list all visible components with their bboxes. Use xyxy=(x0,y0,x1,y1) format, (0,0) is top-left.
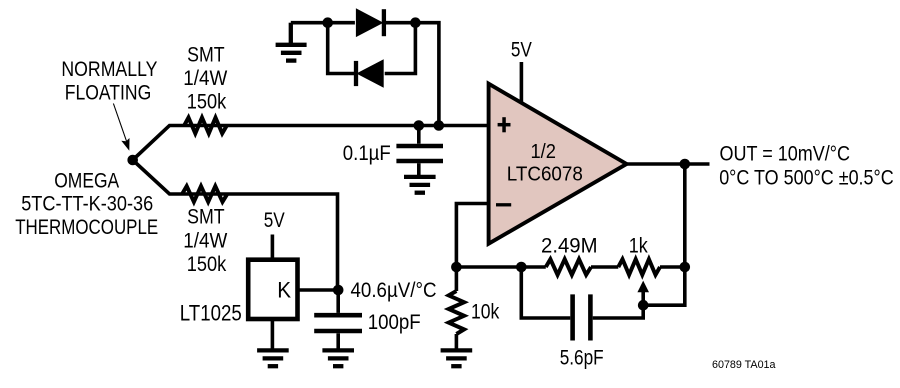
node: clamp right junction xyxy=(410,17,421,28)
wire: 5V supply stub at op-amp xyxy=(520,62,524,103)
node: 5.6pF branch xyxy=(516,262,527,273)
wire: LT1025 ground stub xyxy=(271,319,275,351)
wire: 5V stub LT1025 xyxy=(271,235,275,258)
svg-text:5.6pF: 5.6pF xyxy=(560,347,604,370)
svg-text:LT1025: LT1025 xyxy=(180,301,242,326)
svg-text:K: K xyxy=(277,277,291,302)
svg-text:5TC-TT-K-30-36: 5TC-TT-K-30-36 xyxy=(21,193,153,216)
resistor R1 150k zigzag xyxy=(184,118,227,134)
pin + symbol xyxy=(498,117,511,132)
svg-text:60789 TA01a: 60789 TA01a xyxy=(712,359,776,371)
svg-text:OMEGA: OMEGA xyxy=(54,170,119,193)
svg-text:2.49M: 2.49M xyxy=(541,234,598,257)
svg-text:100pF: 100pF xyxy=(368,311,421,334)
pot wiper arrow xyxy=(637,281,649,306)
node: clamp drop junction on +input line xyxy=(434,120,445,131)
wire: feedback line xyxy=(456,265,545,269)
wire: 5.6pF branch left xyxy=(521,267,570,318)
svg-text:SMT: SMT xyxy=(187,43,225,66)
diode D1 (anode left, pointing right) xyxy=(357,9,384,36)
wire: 5.6pF branch right xyxy=(593,305,644,318)
svg-text:OUT = 10mV/°C: OUT = 10mV/°C xyxy=(720,143,851,166)
svg-text:1/4W: 1/4W xyxy=(183,229,227,252)
node: clamp left junction xyxy=(322,17,333,28)
ground (10k) xyxy=(441,350,473,366)
svg-text:5V: 5V xyxy=(511,39,532,62)
resistor R4 1k pot zigzag xyxy=(618,259,660,275)
ground (LT1025) xyxy=(257,350,289,366)
svg-text:40.6µV/°C: 40.6µV/°C xyxy=(351,279,437,302)
resistor R2 150k zigzag xyxy=(182,186,227,202)
wire: inverting input to feedback node xyxy=(456,204,488,268)
wire: op-amp output xyxy=(627,162,710,166)
wire: bottom clamp diode branch xyxy=(328,23,354,74)
svg-text:LTC6078: LTC6078 xyxy=(507,164,583,186)
ground (100pF) xyxy=(322,350,354,366)
wire: wiper to right feedback node xyxy=(643,267,685,305)
resistor R5 10k vertical xyxy=(455,267,459,291)
svg-text:1/4W: 1/4W xyxy=(183,67,227,90)
wire: thermocouple top lead (node to R1 to opamp + input) xyxy=(133,126,489,161)
svg-text:5V: 5V xyxy=(264,209,285,232)
svg-text:NORMALLY: NORMALLY xyxy=(61,58,157,81)
capacitor C1 0.1uF xyxy=(396,126,443,177)
node: C1 junction on +input line xyxy=(414,120,425,131)
node: output xyxy=(680,159,691,170)
diode D2 (pointing left) xyxy=(356,61,383,86)
svg-text:FLOATING: FLOATING xyxy=(65,82,152,105)
svg-text:1/2: 1/2 xyxy=(530,141,556,163)
ground (clamp diodes) xyxy=(276,23,307,61)
svg-text:SMT: SMT xyxy=(187,206,225,229)
wire: top clamp diode branch from ground to D1 to right junction xyxy=(291,21,355,25)
svg-text:150k: 150k xyxy=(187,253,227,276)
svg-text:150k: 150k xyxy=(187,91,227,114)
annotation arrow (normally floating) xyxy=(113,104,129,151)
capacitor C2 100pF xyxy=(314,290,362,350)
capacitor C3 5.6pF xyxy=(573,294,591,340)
wire: K output to node xyxy=(299,288,338,292)
pin - symbol xyxy=(496,203,511,206)
wire: thermocouple bottom lead (node to R2 to LT1025 K node) xyxy=(133,160,338,290)
wire: output down to feedback xyxy=(683,164,687,267)
svg-text:0°C TO 500°C ±0.5°C: 0°C TO 500°C ±0.5°C xyxy=(719,166,894,189)
resistor R3 2.49M zigzag xyxy=(546,259,591,275)
node: feedback left xyxy=(451,262,462,273)
ground (C1) xyxy=(404,177,436,193)
node: wiper xyxy=(638,300,649,311)
LT1025 box U2 xyxy=(248,260,297,319)
svg-text:0.1µF: 0.1µF xyxy=(343,142,391,165)
svg-text:1k: 1k xyxy=(629,235,649,258)
op-amp U1 LTC6078 triangle xyxy=(489,84,627,244)
node: K compensation node xyxy=(333,285,344,296)
node: feedback right xyxy=(680,262,691,273)
svg-text:THERMOCOUPLE: THERMOCOUPLE xyxy=(15,216,158,239)
node: thermocouple junction xyxy=(127,155,138,166)
svg-text:10k: 10k xyxy=(471,300,500,323)
